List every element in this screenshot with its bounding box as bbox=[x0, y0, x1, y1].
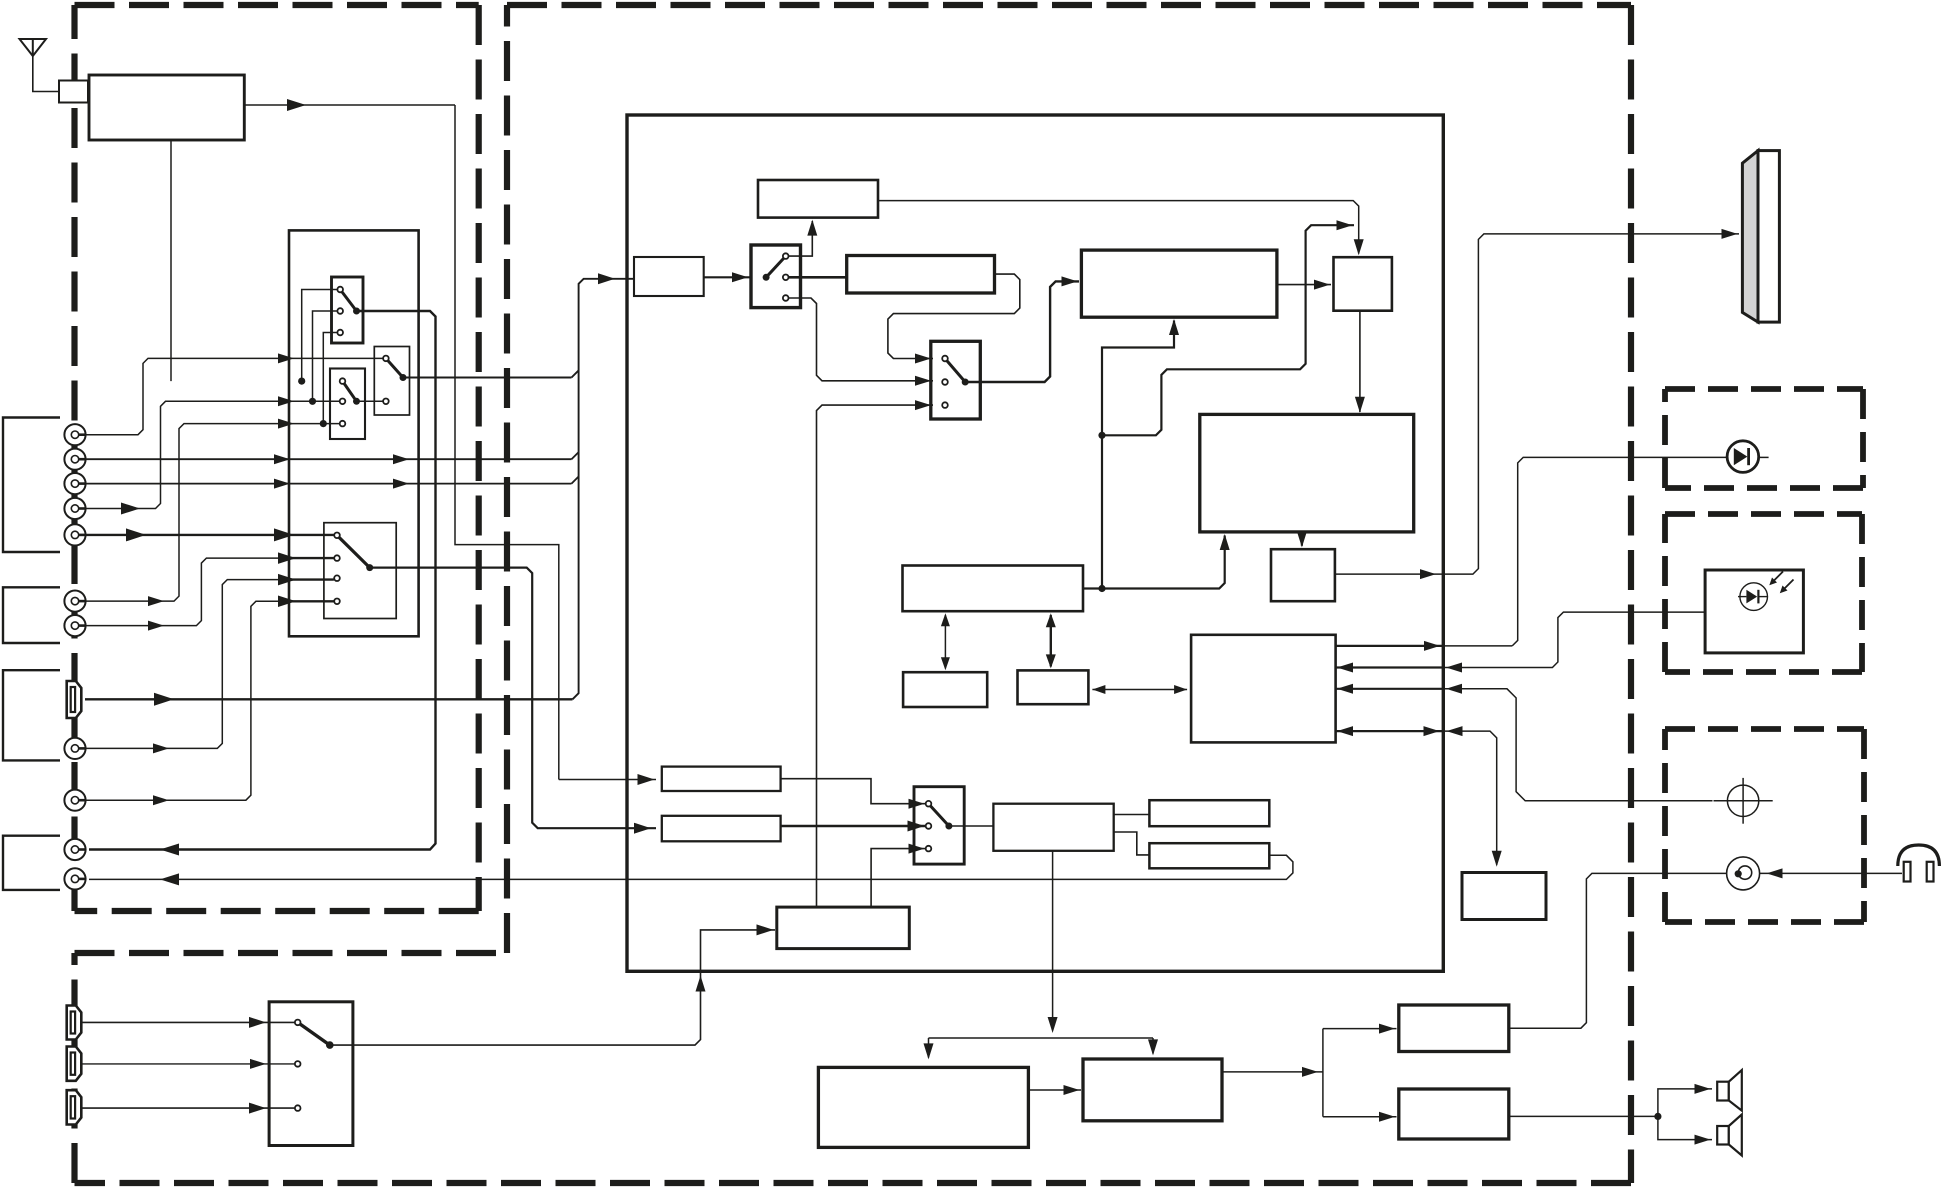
wire: degauss/crosshair to micom bbox=[1336, 684, 1713, 801]
wire: tuner video down-feed bbox=[170, 140, 172, 381]
dashed enclosure: main chassis (center, L-shaped) bbox=[75, 5, 1632, 1183]
antenna symbol bbox=[20, 39, 60, 92]
wire: H/V block output to CPU bottom bbox=[1083, 534, 1230, 589]
wire: power control to audio power bbox=[1028, 1085, 1081, 1095]
dashed enclosure: tuner/input section (top-left) bbox=[75, 5, 479, 911]
switch SWE contacts bbox=[295, 1020, 301, 1111]
jack J6 (video in 3) bbox=[64, 591, 85, 612]
bottom AV connector 1 bbox=[67, 1006, 82, 1040]
headphones symbol bbox=[1898, 845, 1940, 882]
wire: attenuator to audio out amp lower bbox=[1114, 832, 1150, 855]
box: input selector group bbox=[289, 230, 419, 636]
wire: deflection net with junctions bbox=[1098, 220, 1354, 592]
wire: SW2 common to SW3 contact bbox=[357, 400, 383, 402]
wire: audio power amp to headphone and speaker amps bbox=[1222, 1024, 1397, 1122]
block: power control bbox=[818, 1067, 1028, 1147]
degauss crosshair symbol bbox=[1714, 778, 1773, 824]
block: CPU / jungle IC bbox=[1200, 414, 1414, 532]
speaker symbol (right ch) bbox=[1717, 1114, 1742, 1155]
jack J11 (monitor audio out) bbox=[64, 868, 85, 889]
bracket: inputs group 3 bbox=[3, 670, 60, 760]
block: audio out amp A bbox=[1149, 800, 1269, 826]
wire: jack J5 row to SW4 contact1 bbox=[86, 528, 334, 541]
block: audio out amp B bbox=[1149, 843, 1269, 868]
block: key control box bbox=[1462, 873, 1546, 920]
wire: video chroma to OSD box bbox=[1277, 280, 1331, 290]
block: video chroma process bbox=[1081, 250, 1277, 317]
S-video input connector bbox=[67, 681, 82, 718]
wire: SWA contact3 down to SWB row bbox=[789, 298, 933, 386]
jack J5 (audio in 1) bbox=[64, 524, 85, 545]
jack J3 (C in) bbox=[64, 473, 85, 494]
wire: SW1 contact2 tap bbox=[309, 311, 337, 405]
jack J2 (Y in) bbox=[64, 449, 85, 470]
jack J10 (monitor video out) bbox=[64, 839, 85, 860]
wire: jack J2 row (to chroma bus) bbox=[86, 454, 572, 464]
block: IF amp bbox=[634, 257, 704, 296]
block: speaker amp bbox=[1399, 1089, 1509, 1139]
switch SWA lever and common bbox=[763, 256, 786, 281]
bidirectional link: H/V osc and EEPROM bbox=[941, 613, 950, 670]
jack J9 (audio in 4) bbox=[64, 790, 85, 811]
switch SW3 contacts bbox=[383, 356, 389, 405]
switch SWB box bbox=[931, 341, 981, 419]
switch SW4 contacts bbox=[334, 533, 340, 605]
jack J7 (audio in 2) bbox=[64, 615, 85, 636]
remote sensor box bbox=[1705, 570, 1803, 653]
switch SW3 lever and common bbox=[386, 358, 407, 381]
switch SWC lever and common bbox=[929, 804, 953, 830]
bracket: video inputs group 1 bbox=[3, 418, 60, 553]
block: audio power amp bbox=[1083, 1059, 1222, 1121]
jack J8 (audio in 3) bbox=[64, 738, 85, 759]
switch SW1 lever and common bbox=[340, 290, 360, 315]
wire: video amp out to SWB contact1 bbox=[888, 274, 1020, 363]
wire: OSD box down to CPU bbox=[1355, 311, 1365, 413]
dashed enclosure: remote sensor box (right) bbox=[1665, 514, 1862, 672]
wire: S-video row (to chroma bus) bbox=[85, 693, 573, 706]
wire: jack J4 row to selector row C bbox=[86, 396, 340, 514]
block: sync separator bbox=[758, 180, 878, 218]
switch SWA box bbox=[751, 245, 801, 308]
switch SWB contacts bbox=[942, 356, 948, 408]
wire: SW4 common output to audio block bbox=[370, 568, 656, 834]
block: EEPROM bbox=[903, 672, 987, 707]
switch SW3 box bbox=[374, 347, 409, 416]
switch SWE lever and common bbox=[298, 1022, 334, 1048]
block: memory bbox=[1018, 670, 1089, 704]
switch SW2 contacts bbox=[340, 378, 346, 426]
bottom AV connector 3 bbox=[67, 1090, 82, 1124]
LED indicator (timer) bbox=[1727, 441, 1759, 473]
block: SIF amp bbox=[662, 767, 781, 791]
wire: jack J1 row to selector row A bbox=[86, 353, 383, 434]
wire: jack J3 row (to chroma bus) bbox=[86, 479, 572, 489]
block: audio process bbox=[777, 907, 910, 949]
wire: micom to key/control box bbox=[1336, 726, 1502, 867]
wire: jack J9 row to SW4 contact4 bbox=[86, 596, 334, 806]
switch SW2 lever and common bbox=[343, 381, 361, 405]
bidirectional link: memory and micom bbox=[1092, 685, 1187, 694]
switch SW4 box bbox=[324, 523, 396, 619]
wire: headphones plug into phones jack bbox=[1760, 868, 1902, 878]
photodiode symbol bbox=[1738, 572, 1794, 611]
block: H/V oscillator bbox=[903, 566, 1084, 612]
bottom AV connector 2 bbox=[67, 1047, 82, 1081]
wire: SIF amp to SWC contact1 bbox=[781, 779, 927, 809]
wire: SW3 common output to chroma bus bbox=[403, 377, 572, 379]
block: RGB drive bbox=[1271, 549, 1335, 601]
wire: attenuator to audio out amp upper bbox=[1114, 814, 1150, 816]
switch SW2 box bbox=[330, 369, 365, 440]
switch SWE box bbox=[269, 1002, 353, 1146]
jack J4 (video in 2) bbox=[64, 498, 85, 519]
speaker symbol (left ch) bbox=[1717, 1070, 1742, 1111]
chroma bus vertical bbox=[572, 273, 635, 699]
block: audio in amp bbox=[662, 816, 781, 842]
dashed enclosure: front AV/phones box (right) bbox=[1665, 729, 1864, 922]
wire: audio process to SWC contact3 bbox=[871, 844, 926, 908]
wire: remote sensor to micom bbox=[1336, 612, 1706, 672]
block: video amp bbox=[847, 256, 995, 294]
wire: connector3 to SWE contact3 bbox=[81, 1103, 294, 1114]
wire: headphone amp to phones jack bbox=[1509, 873, 1727, 1028]
jack J1 (video in 1) bbox=[64, 424, 85, 445]
wire: jack J7 row to SW4 contact2 bbox=[86, 552, 334, 630]
wire: attenuator down to audio power split bbox=[924, 851, 1159, 1060]
phones jack symbol bbox=[1727, 857, 1760, 890]
antenna input box bbox=[59, 81, 88, 103]
wire: SWB contact3 feed from audio video block bbox=[817, 400, 934, 907]
dashed enclosure: LED indicator box (right) bbox=[1665, 389, 1863, 488]
bracket: inputs group 2 bbox=[3, 587, 60, 643]
block: micom bbox=[1191, 635, 1336, 743]
wire: tuner audio into SIF amp bbox=[559, 774, 656, 785]
block: audio attenuator bbox=[993, 804, 1113, 851]
switch SW1 contacts bbox=[337, 287, 343, 336]
wire: CPU to RGB drive box bbox=[1297, 531, 1307, 547]
wire: jack J6 row to selector row D bbox=[86, 419, 340, 606]
wire: SW1 contact3 tap bbox=[320, 333, 337, 428]
wire: SWE common up into audio process block bbox=[330, 924, 775, 1045]
wire: speaker amp to speakers bbox=[1509, 1084, 1712, 1145]
switch SWA contacts bbox=[783, 253, 789, 301]
CRT screen symbol bbox=[1742, 151, 1779, 323]
bidirectional link: H/V osc and memory bbox=[1046, 613, 1056, 668]
wire: jack J8 row to SW4 contact3 bbox=[86, 574, 334, 754]
wire: SWA contact2 to video amp bbox=[789, 276, 847, 279]
block: headphone amp bbox=[1399, 1005, 1509, 1052]
switch SWC box bbox=[914, 787, 964, 864]
wire: SWB common output to video chroma bbox=[965, 276, 1079, 382]
wire: tuner RF output to drop at x455 bbox=[244, 99, 559, 780]
switch SW4 lever and common bbox=[337, 535, 373, 571]
switch SW1 box bbox=[332, 277, 364, 343]
switch SWB lever and common bbox=[945, 359, 969, 386]
wire: SWC common to audio attenuator bbox=[949, 825, 994, 827]
switch SWC contacts bbox=[926, 801, 932, 851]
wire: connector2 to SWE contact2 bbox=[81, 1059, 294, 1069]
bracket: monitor out group bbox=[3, 836, 60, 890]
wire: micom to timer LED bbox=[1336, 457, 1769, 651]
wire: SW1 contact1 tap bbox=[298, 290, 337, 385]
block: OSD / RGB box bbox=[1334, 257, 1392, 311]
block: tuner bbox=[89, 75, 244, 140]
wire: SWA contact1 to sync block bbox=[789, 220, 818, 257]
box: main signal board bbox=[627, 115, 1443, 971]
wire: SW1 common output to monitor video jack bbox=[89, 311, 436, 856]
wire: IF amp to switch SWA bbox=[704, 272, 750, 282]
wire: connector1 to SWE contact1 bbox=[81, 1017, 294, 1028]
wire: RGB drive output to CRT bbox=[1335, 229, 1739, 579]
wire: audio out amp B to monitor audio jack bbox=[89, 855, 1293, 885]
wire: sync block output to OSD feed bbox=[878, 201, 1364, 256]
wire: audio in amp to SWC contact2 bbox=[781, 821, 927, 832]
